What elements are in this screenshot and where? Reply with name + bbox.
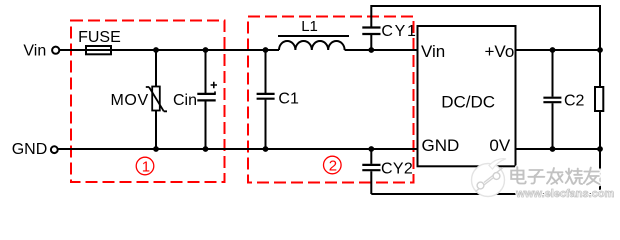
svg-text:Cin: Cin xyxy=(173,92,197,109)
capacitor CY1 xyxy=(362,28,380,35)
svg-text:CY1: CY1 xyxy=(381,23,417,40)
node C2/0V xyxy=(550,146,556,152)
svg-text:DC/DC: DC/DC xyxy=(441,93,495,112)
wire CY1 branch xyxy=(370,5,372,50)
svg-text:GND: GND xyxy=(422,136,460,155)
wire C2 branch bottom xyxy=(552,103,554,149)
wire right vertical bottom xyxy=(599,111,601,194)
svg-text:Vin: Vin xyxy=(421,42,445,61)
svg-text:1: 1 xyxy=(142,159,150,176)
node CY2/GND xyxy=(368,146,374,152)
terminal GND xyxy=(51,146,58,153)
svg-text:CY2: CY2 xyxy=(381,161,413,178)
wire top rail xyxy=(371,5,600,7)
node C2/+Vo xyxy=(550,47,556,53)
terminal Vin xyxy=(52,47,59,54)
wire bottom rail xyxy=(371,193,600,195)
stage number 2 (red circled) xyxy=(324,156,342,174)
node MOV/Vin xyxy=(153,47,159,53)
filter stage box 2 (red dashed) xyxy=(248,17,414,183)
wire GND rail xyxy=(56,148,418,150)
wire L1 to DC/DC Vin xyxy=(345,49,418,51)
watermark logo (elecfans) xyxy=(472,159,507,197)
watermark wire cover xyxy=(596,169,603,185)
wire 0V rail xyxy=(516,148,601,150)
inductor L1 coil xyxy=(279,41,345,50)
node C1/Vin xyxy=(263,47,269,53)
node R/+Vo xyxy=(597,47,603,53)
svg-text:Vin: Vin xyxy=(23,43,46,60)
capacitor Cin (polarized) xyxy=(197,82,217,101)
wire Cin branch bottom xyxy=(205,101,207,149)
svg-text:2: 2 xyxy=(329,158,337,175)
svg-text:0V: 0V xyxy=(489,136,510,155)
wire Cin branch top xyxy=(205,50,207,93)
node MOV/GND xyxy=(153,146,159,152)
node Cin/Vin xyxy=(203,47,209,53)
svg-text:GND: GND xyxy=(12,141,48,158)
wire MOV branch xyxy=(155,50,157,149)
filter stage box 1 (red dashed) xyxy=(71,21,225,183)
node R/0V xyxy=(597,146,603,152)
node C1/GND xyxy=(263,146,269,152)
svg-text:+Vo: +Vo xyxy=(485,42,515,61)
svg-text:L1: L1 xyxy=(301,18,318,35)
node CY1/Vin xyxy=(368,47,374,53)
svg-text:FUSE: FUSE xyxy=(78,29,121,46)
svg-text:C2: C2 xyxy=(564,93,585,110)
watermark text 电子发烧友 (drawn strokes) xyxy=(511,167,599,184)
wire C1 branch bottom xyxy=(265,100,267,149)
load resistor R xyxy=(595,87,603,111)
svg-text:MOV: MOV xyxy=(111,92,149,109)
wire +Vo rail xyxy=(516,49,601,51)
svg-text:C1: C1 xyxy=(278,91,299,108)
svg-text:www.elecfans.com: www.elecfans.com xyxy=(515,188,614,200)
wire right vertical top xyxy=(599,5,601,87)
wire C1 branch top xyxy=(265,50,267,93)
wire CY2 branch xyxy=(370,149,372,194)
DC/DC converter block U1 xyxy=(418,26,516,166)
wire C2 branch top xyxy=(552,50,554,97)
node Cin/GND xyxy=(203,146,209,152)
stage number 1 (red circled) xyxy=(136,157,154,175)
L1 core bar xyxy=(278,35,349,37)
MOV varistor body xyxy=(146,87,167,112)
capacitor CY2 xyxy=(362,165,380,170)
wire Vin rail xyxy=(58,49,279,51)
fuse F (body) xyxy=(86,46,111,54)
capacitor C2 xyxy=(543,98,561,103)
capacitor C1 xyxy=(257,94,275,99)
